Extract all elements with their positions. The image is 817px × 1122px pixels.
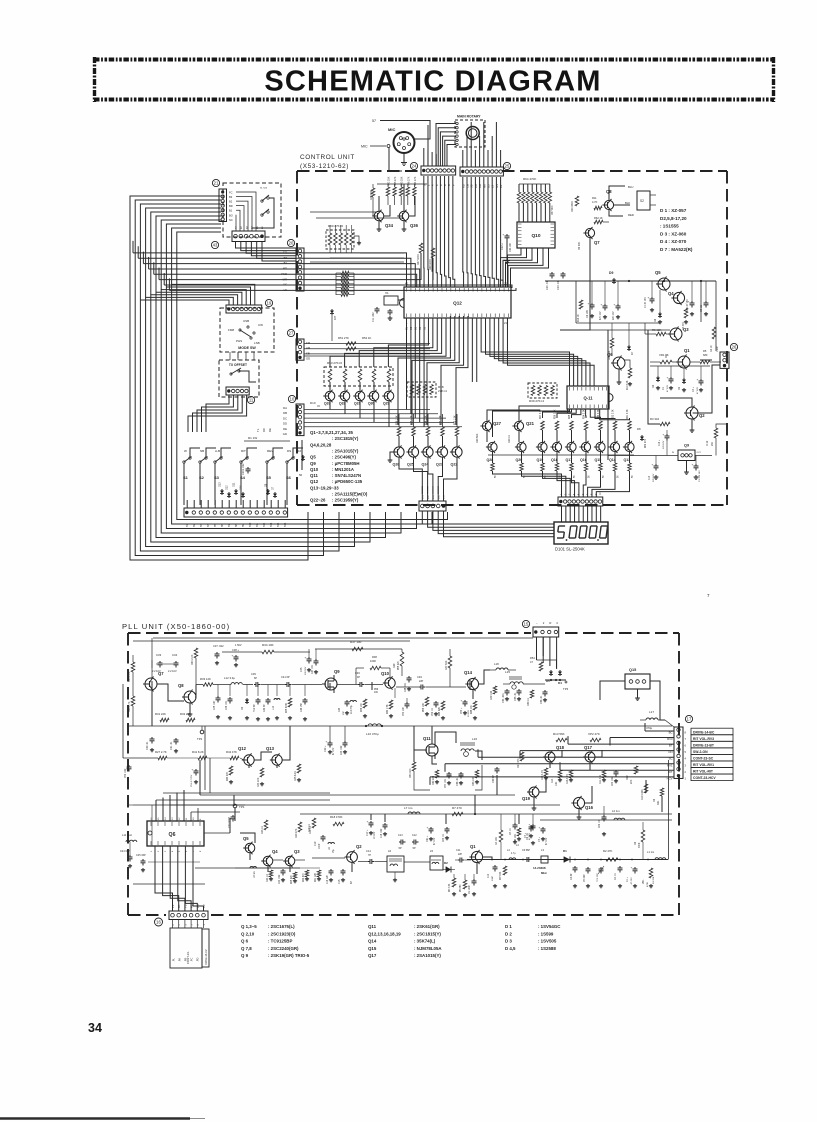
resistor cluster above Q10 — [517, 177, 554, 222]
svg-text:22K: 22K — [630, 779, 633, 784]
ground at MIC — [403, 160, 405, 163]
svg-text:C33: C33 — [156, 653, 162, 657]
svg-text:C42 3P: C42 3P — [264, 704, 266, 712]
svg-text:C10: C10 — [488, 873, 490, 878]
svg-text:R49 100: R49 100 — [490, 690, 493, 700]
coil L6 with core — [387, 849, 404, 882]
svg-text:: 2SC1815(Y): : 2SC1815(Y) — [332, 436, 359, 441]
svg-text:4P: 4P — [357, 676, 360, 679]
svg-text:C23 .022: C23 .022 — [341, 745, 343, 755]
svg-text:CONT-23-HCV: CONT-23-HCV — [693, 776, 716, 780]
svg-text:C52 .01: C52 .01 — [432, 707, 434, 716]
svg-text:Q22: Q22 — [451, 463, 458, 467]
svg-text:R9: R9 — [634, 841, 637, 845]
bottom signal rail PLL — [467, 760, 669, 860]
connector 25 — [460, 162, 511, 176]
svg-text:D3: D3 — [241, 706, 244, 710]
svg-text:: μPD650C-135: : μPD650C-135 — [332, 479, 363, 484]
svg-text:DRIVE-13-BT: DRIVE-13-BT — [693, 743, 715, 747]
parts left of crystal filter — [488, 814, 536, 888]
test point TP1 — [233, 804, 245, 821]
svg-text:Q8: Q8 — [178, 683, 184, 688]
svg-text:PB: PB — [183, 904, 187, 908]
transistor Q34 — [374, 211, 384, 221]
resistor R7 47K under Q4 — [682, 304, 688, 330]
svg-text:LSB: LSB — [254, 341, 260, 345]
transistor Q5 right area — [658, 278, 670, 290]
svg-text:D4: D4 — [558, 681, 562, 685]
IC Q11 SN74LS247 — [567, 386, 613, 409]
svg-text:R5 680: R5 680 — [460, 884, 462, 892]
resistor R2 47K on rail — [603, 849, 618, 861]
svg-text:100: 100 — [374, 692, 379, 694]
svg-text:Q4,6,20,28: Q4,6,20,28 — [310, 442, 332, 447]
svg-text:C13: C13 — [649, 475, 651, 480]
svg-text:22P: 22P — [458, 854, 463, 856]
left harness wire bundle — [130, 196, 448, 560]
cap C49 22P — [396, 675, 466, 690]
svg-text:DA: DA — [283, 406, 287, 410]
diode D9 — [609, 271, 616, 284]
crystal L3 14.20398 MHz — [533, 848, 548, 875]
svg-text:PA: PA — [177, 904, 181, 908]
transistor Q29 — [382, 390, 394, 427]
svg-text:R35 470K: R35 470K — [286, 702, 288, 713]
svg-text:R11: R11 — [592, 196, 597, 200]
svg-text:C6 .01: C6 .01 — [526, 832, 529, 840]
svg-text:C13: C13 — [398, 834, 403, 837]
coil L17 above connector 17 — [640, 710, 665, 730]
voltage regulator Q9 — [608, 444, 712, 475]
svg-text:+: + — [461, 699, 463, 703]
svg-text:4: 4 — [185, 924, 187, 926]
svg-text:R20 1K: R20 1K — [508, 435, 511, 443]
diode D2 on line — [443, 861, 455, 873]
diode cluster D10-D13 — [219, 482, 278, 498]
svg-text:C7 +: C7 + — [538, 836, 541, 842]
svg-text:19: 19 — [267, 301, 272, 306]
svg-text:R14 1K: R14 1K — [578, 314, 580, 322]
svg-text:R29 2.2K: R29 2.2K — [128, 671, 131, 682]
svg-text:−: − — [536, 621, 538, 625]
svg-text:: 2SC496(Y): : 2SC496(Y) — [332, 455, 356, 460]
transistor Q3 PLL — [285, 856, 295, 866]
svg-text:R51 27K: R51 27K — [338, 336, 349, 340]
svg-text:DD: DD — [283, 422, 287, 426]
svg-text:R11 47K: R11 47K — [599, 774, 602, 784]
svg-text:: 2SC1923(O): : 2SC1923(O) — [268, 931, 296, 936]
transistor Q30 — [367, 390, 379, 423]
svg-text:7: 7 — [707, 593, 710, 598]
svg-text:C30 .01: C30 .01 — [146, 741, 149, 750]
svg-text:R23 3.3K: R23 3.3K — [598, 409, 600, 419]
staircase wires inside box 21 — [236, 192, 256, 231]
svg-text:R27 3.3K: R27 3.3K — [540, 409, 542, 419]
wires from connector 20 to harness and Q12 — [133, 241, 516, 290]
svg-text:BO: BO — [229, 213, 233, 217]
svg-text:4: 4 — [556, 621, 558, 625]
wires below connector 22 — [236, 242, 297, 262]
wires below TX OFFSET — [188, 395, 247, 432]
svg-text:: 35K74(L): : 35K74(L) — [414, 939, 436, 944]
svg-text:16: 16 — [156, 920, 161, 925]
parts below Q14 — [461, 690, 478, 720]
svg-text:11: 11 — [249, 398, 254, 403]
svg-text:: 2SA1115(E)w(O): : 2SA1115(E)w(O) — [332, 492, 368, 497]
wires above MODE SW to harness — [140, 284, 255, 305]
svg-text:220 10V: 220 10V — [653, 473, 655, 482]
svg-text:10: 10 — [193, 817, 195, 820]
svg-text:CV: CV — [202, 904, 206, 908]
wires and parts near Q7 Q8 — [560, 186, 630, 330]
svg-text:GD: GD — [306, 357, 310, 361]
svg-text:C25 33P: C25 33P — [136, 854, 146, 857]
cap C21 100P — [228, 815, 236, 828]
svg-text:MIC: MIC — [361, 145, 368, 149]
svg-text:R38: R38 — [372, 655, 377, 659]
svg-text:D 7 : MA522(R): D 7 : MA522(R) — [660, 247, 693, 252]
svg-text:C63 .01: C63 .01 — [443, 833, 445, 842]
resistor R34 10K — [222, 643, 310, 654]
MODE SW box — [220, 299, 274, 352]
svg-text:R53 100: R53 100 — [472, 776, 475, 786]
svg-text:4.7μ: 4.7μ — [511, 853, 516, 855]
svg-text:+: + — [367, 820, 369, 824]
svg-text:+: + — [192, 768, 194, 772]
resistor R62 1K under Q8 — [594, 216, 609, 224]
svg-text:.PA: .PA — [178, 958, 182, 962]
svg-text:Q12,13,16,18,19: Q12,13,16,18,19 — [368, 931, 401, 936]
svg-text:470μ: 470μ — [646, 726, 653, 730]
svg-text:TL: TL — [256, 428, 260, 432]
svg-text:: 2SC2240(GR): : 2SC2240(GR) — [268, 946, 299, 951]
svg-text:Q27: Q27 — [493, 421, 502, 426]
svg-text:NB: NB — [200, 449, 204, 453]
svg-text:R15 4.7K: R15 4.7K — [541, 770, 544, 780]
svg-text:+: + — [588, 302, 590, 306]
coil L16 with core — [460, 737, 482, 760]
svg-text:C16 +: C16 + — [659, 439, 661, 446]
long rail wires PLL — [128, 641, 672, 884]
transistor Q7 right — [585, 228, 594, 237]
svg-text:L6: L6 — [388, 849, 392, 853]
resistor pack R60 27Kx6 dashed box — [326, 224, 361, 253]
svg-text:Q1: Q1 — [470, 844, 476, 849]
svg-text:3: 3 — [165, 850, 167, 852]
wires above bottom-left connector — [187, 500, 285, 508]
svg-text:4.7K: 4.7K — [592, 200, 598, 204]
svg-text:R16 4.7K: R16 4.7K — [566, 774, 569, 784]
svg-text:R32 1.5K: R32 1.5K — [455, 415, 457, 425]
svg-text:R10 330K: R10 330K — [571, 201, 574, 212]
svg-text:8: 8 — [685, 731, 687, 735]
svg-text:Q9: Q9 — [310, 461, 316, 466]
svg-text:: 1S2588: : 1S2588 — [538, 946, 556, 951]
svg-text:DC: DC — [283, 416, 287, 420]
svg-text:12: 12 — [179, 817, 181, 820]
svg-text:3: 3 — [685, 763, 687, 767]
svg-text:D 1: D 1 — [505, 924, 512, 929]
svg-text:C34: C34 — [172, 653, 178, 657]
svg-text:DE: DE — [283, 427, 287, 431]
svg-text:Q10: Q10 — [381, 671, 390, 676]
svg-text:C1 +: C1 + — [627, 876, 629, 882]
svg-text:Q22~26: Q22~26 — [310, 498, 326, 503]
svg-text:C22 +: C22 + — [324, 745, 327, 752]
svg-text:C4 4P: C4 4P — [571, 873, 573, 880]
svg-text:8P: 8P — [350, 881, 353, 884]
svg-text:14: 14 — [165, 817, 167, 820]
svg-text:R13 56K: R13 56K — [553, 732, 565, 736]
svg-text:1: 1 — [151, 850, 153, 852]
svg-text:C44 15P: C44 15P — [301, 703, 303, 712]
svg-text:L3: L3 — [541, 848, 544, 852]
resistors R55 220 R39 column — [393, 649, 412, 692]
svg-text:C52 .022: C52 .022 — [125, 768, 127, 778]
svg-text:Q11: Q11 — [423, 736, 431, 741]
diode D8 right of row B — [637, 427, 647, 448]
svg-text:RIT: RIT — [333, 315, 337, 320]
svg-text:D9: D9 — [609, 271, 613, 275]
svg-text:FC: FC — [229, 191, 233, 195]
svg-text:+: + — [652, 463, 654, 467]
svg-text:: 2SK19(GR) TRIO-5: : 2SK19(GR) TRIO-5 — [268, 953, 310, 958]
coil L4 and cap C6 on rail — [507, 849, 532, 862]
parts below rail L7 — [308, 820, 548, 851]
svg-text:R6 3.3K: R6 3.3K — [449, 883, 451, 892]
parts around Q16-Q19 — [517, 732, 664, 819]
IC Q10 MN1201A — [517, 222, 555, 248]
svg-text:R55 220: R55 220 — [398, 661, 400, 670]
svg-text:Q-11: Q-11 — [583, 395, 593, 400]
svg-text:Q2: Q2 — [356, 844, 362, 849]
svg-text:Q12: Q12 — [453, 300, 462, 305]
svg-text:7P: 7P — [368, 854, 371, 857]
svg-text:R23 1K: R23 1K — [261, 826, 264, 834]
svg-text:VR1 1K: VR1 1K — [659, 353, 669, 357]
svg-text:Q 1,3~5: Q 1,3~5 — [241, 924, 257, 929]
TX OFFSET box — [219, 360, 259, 404]
notch at Q6 — [148, 831, 152, 835]
signal name table at connector 17 — [691, 728, 733, 780]
FET Q11 PLL — [421, 736, 438, 759]
svg-text:TX OFFSET: TX OFFSET — [229, 363, 247, 367]
svg-text:B1: B1 — [229, 209, 233, 213]
wires around Q34 Q36 — [373, 184, 415, 231]
resistor pack R53 27Kx6 with transistor row Q29-Q33 — [324, 361, 393, 391]
svg-text:MIC: MIC — [388, 127, 395, 132]
transistor Q1 right area — [678, 356, 690, 368]
svg-text:R42 47K: R42 47K — [226, 750, 237, 754]
svg-text:5: 5 — [685, 750, 687, 754]
horizontal jog wires mid control — [310, 212, 404, 262]
parts row mid-bottom PLL — [250, 815, 353, 884]
svg-text:Q12: Q12 — [310, 479, 319, 484]
svg-text:30K: 30K — [657, 800, 660, 805]
svg-text:C45: C45 — [300, 667, 303, 672]
svg-text:: SN74LS247N: : SN74LS247N — [332, 473, 361, 478]
svg-text:NC: NC — [229, 218, 233, 222]
svg-text:R53 27K×6: R53 27K×6 — [327, 361, 342, 365]
coil L5 with core — [404, 849, 443, 870]
PLL diode legend column 3 — [505, 924, 561, 951]
svg-text:10K: 10K — [555, 781, 558, 786]
svg-text:D10: D10 — [296, 449, 302, 453]
transistor Q19 PLL — [529, 787, 539, 797]
potentiometer VR1 1K — [650, 353, 678, 364]
svg-text:REV: REV — [267, 449, 273, 453]
svg-text:Q34: Q34 — [385, 223, 394, 228]
svg-text:R59: R59 — [374, 689, 379, 691]
svg-text:C2 .01: C2 .01 — [615, 873, 617, 880]
svg-text:R47 33K: R47 33K — [445, 660, 448, 670]
wire from Q10 to rail — [315, 640, 402, 651]
svg-text:C38 +: C38 + — [232, 648, 239, 652]
svg-text:C61 +: C61 + — [426, 835, 429, 842]
parts below L15 — [490, 686, 548, 706]
svg-text:R3 334: R3 334 — [650, 417, 659, 421]
svg-text:L12 3.3μ: L12 3.3μ — [224, 676, 235, 680]
crystal parts left of Q6 — [120, 833, 146, 872]
MAIN ROTARY encoder — [436, 115, 485, 167]
svg-text:C6 56P: C6 56P — [522, 849, 530, 852]
svg-text:C35 .047: C35 .047 — [214, 700, 216, 710]
svg-text:A-B: A-B — [215, 449, 220, 453]
control transistor legend — [310, 430, 368, 503]
svg-text:SL S24: SL S24 — [260, 188, 268, 190]
svg-text:R3 5.6K: R3 5.6K — [500, 871, 502, 880]
transistor Q31 — [353, 390, 365, 418]
svg-text:Q13: Q13 — [266, 746, 275, 751]
svg-text:C53 +: C53 + — [461, 707, 463, 714]
svg-text:B10: B10 — [249, 522, 252, 527]
svg-text:Q18: Q18 — [556, 745, 565, 750]
svg-text:7: 7 — [685, 737, 687, 741]
svg-text:+: + — [692, 463, 694, 467]
connector 16 bottom strip — [155, 911, 209, 926]
svg-text:AM: AM — [306, 346, 311, 350]
coils L7 R7 on rail — [404, 806, 476, 816]
svg-text:C36 .001: C36 .001 — [226, 700, 228, 710]
svg-text:D8: D8 — [654, 318, 657, 322]
svg-text:26: 26 — [732, 345, 737, 350]
transistors Q27 Q21 — [476, 406, 560, 443]
svg-text:.47 25V: .47 25V — [631, 877, 633, 885]
svg-text:21: 21 — [504, 321, 507, 325]
connector 26 left — [283, 395, 304, 436]
svg-text:R64 470K: R64 470K — [523, 177, 536, 181]
svg-text:56: 56 — [618, 475, 620, 478]
svg-text:R41 8.2K: R41 8.2K — [192, 750, 204, 754]
svg-text:R4 10K: R4 10K — [514, 834, 517, 842]
svg-text:R14: R14 — [551, 778, 554, 783]
svg-text:6P: 6P — [254, 677, 257, 680]
svg-text:: 1SV505: : 1SV505 — [538, 939, 557, 944]
svg-text:Q14: Q14 — [368, 939, 377, 944]
MIC connector — [361, 119, 430, 171]
svg-text:C8 .01: C8 .01 — [510, 828, 512, 835]
main signal line caps C39 C41 — [251, 672, 322, 687]
svg-text:C16 12P: C16 12P — [327, 875, 329, 884]
svg-text:R48 22K: R48 22K — [439, 707, 441, 716]
svg-text:L7 1m: L7 1m — [404, 806, 413, 810]
capacitor cluster C8 right — [578, 281, 621, 322]
svg-text:R22 3.3K: R22 3.3K — [613, 409, 615, 419]
svg-text:Q23: Q23 — [436, 463, 443, 467]
svg-text:B3: B3 — [229, 195, 233, 199]
wires below Q10 — [501, 248, 549, 287]
svg-text:TP2: TP2 — [197, 737, 203, 741]
svg-text:C60 .022: C60 .022 — [612, 776, 614, 786]
svg-text:Q14: Q14 — [464, 670, 473, 675]
svg-text:L1 1m: L1 1m — [647, 850, 654, 854]
svg-text:PC: PC — [190, 904, 194, 908]
svg-text:27K×4: 27K×4 — [438, 389, 447, 393]
svg-text:S2: S2 — [640, 199, 644, 203]
wires mode sw down to tx offset — [230, 352, 254, 360]
svg-text:+: + — [667, 376, 669, 380]
svg-text:PLL UNIT (X50-1860-00): PLL UNIT (X50-1860-00) — [122, 622, 230, 631]
svg-text:Q15: Q15 — [368, 946, 377, 951]
svg-text:R28 2.7K: R28 2.7K — [128, 701, 131, 712]
svg-text:Q11: Q11 — [368, 924, 377, 929]
PLL transistor legend column 2 — [368, 924, 442, 958]
control unit dashed border — [297, 171, 727, 505]
svg-text:B12: B12 — [263, 522, 266, 527]
svg-text:: μPC78M05H: : μPC78M05H — [332, 461, 359, 466]
coil L1 1m on rail — [647, 850, 666, 860]
svg-text:X1: X1 — [385, 291, 389, 295]
caps near Q9 — [649, 456, 701, 483]
svg-text:R49 33K: R49 33K — [370, 190, 373, 200]
wires above Q6 — [156, 726, 330, 821]
parts under Q1 — [650, 366, 710, 394]
left column resistors PLL — [128, 638, 533, 726]
svg-text:2W: 2W — [711, 442, 714, 446]
pin numbers below connector 16 — [173, 924, 206, 926]
transistor Q10 PLL — [385, 678, 395, 688]
svg-text:TC2 6P: TC2 6P — [254, 704, 256, 712]
svg-text:Q4: Q4 — [272, 849, 278, 854]
svg-text:W: W — [184, 449, 187, 453]
svg-text:R19 1K: R19 1K — [308, 824, 311, 832]
svg-text:47 10V: 47 10V — [333, 747, 335, 755]
svg-text:L18: L18 — [494, 662, 499, 666]
cap C14 7P — [358, 849, 387, 864]
transistor Q4 PLL — [263, 856, 273, 866]
svg-text:Q15: Q15 — [629, 668, 636, 672]
svg-text:R24 10: R24 10 — [266, 874, 269, 882]
svg-text:B11: B11 — [256, 522, 259, 527]
svg-text:Q19: Q19 — [522, 796, 531, 801]
wires from connector 27 going right — [304, 336, 430, 356]
svg-text:C12 +: C12 + — [501, 243, 504, 250]
cap C16 and resistor R12 top — [659, 424, 727, 456]
svg-text:R27 2.7K: R27 2.7K — [155, 750, 167, 754]
transistor Q14 PLL — [467, 678, 478, 689]
svg-text:: TC9125BP: : TC9125BP — [268, 939, 292, 944]
svg-text:R54: R54 — [530, 656, 535, 660]
svg-text:B2: B2 — [241, 226, 243, 229]
display connector pin labels — [561, 492, 602, 495]
svg-text:D13: D13 — [219, 482, 222, 487]
svg-text:D7: D7 — [630, 351, 634, 355]
svg-text:1: 1 — [204, 924, 206, 926]
svg-text:C58 .01: C58 .01 — [456, 777, 459, 786]
svg-text:: 2SK61(GR): : 2SK61(GR) — [414, 924, 440, 929]
svg-text:D 3 : XZ-060: D 3 : XZ-060 — [660, 231, 687, 236]
svg-text:: NJM78L05A: : NJM78L05A — [414, 946, 442, 951]
